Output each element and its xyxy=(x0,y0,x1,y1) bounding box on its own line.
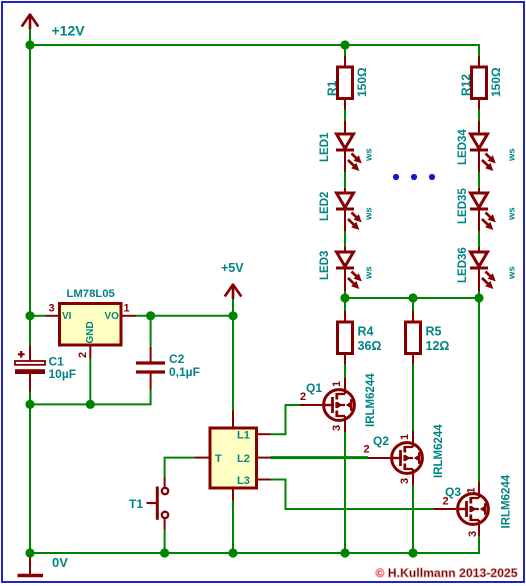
svg-text:2: 2 xyxy=(364,444,370,456)
wire: R12 to LED34 xyxy=(478,110,480,122)
capacitor C2 xyxy=(136,363,165,372)
pin: LED1 anode xyxy=(344,121,346,134)
pin: C2 top xyxy=(150,347,152,362)
svg-text:0V: 0V xyxy=(52,555,68,570)
wire: LED34 to LED35 xyxy=(478,172,480,188)
svg-text:IRLM6244: IRLM6244 xyxy=(365,373,377,427)
junction at 0V rail T1 xyxy=(160,548,169,557)
pin: R1 bottom xyxy=(344,99,346,110)
pin: controller L3 xyxy=(257,479,271,481)
pin: T1 bottom xyxy=(164,519,166,530)
wire: R1 to LED1 xyxy=(344,110,346,122)
svg-text:2: 2 xyxy=(443,496,449,508)
pin: controller L1 xyxy=(257,433,271,435)
svg-text:150Ω: 150Ω xyxy=(355,67,369,97)
svg-text:© H.Kullmann 2013-2025: © H.Kullmann 2013-2025 xyxy=(376,566,518,580)
resistor R4 xyxy=(338,322,353,354)
wire: left +12V rail down to VI node xyxy=(29,29,31,346)
svg-text:0,1µF: 0,1µF xyxy=(169,365,200,379)
LED LED34 xyxy=(470,134,498,174)
pin: T1 top xyxy=(164,477,166,488)
svg-text:R4: R4 xyxy=(358,325,374,339)
pin: Q3 source pin 3 xyxy=(478,525,480,536)
svg-text:Q1: Q1 xyxy=(306,381,322,395)
pin: R12 bottom xyxy=(478,99,480,110)
junction at 0V rail Q1 xyxy=(340,548,349,557)
svg-text:3: 3 xyxy=(331,425,343,431)
pin: R4 top xyxy=(344,311,346,322)
svg-text:T: T xyxy=(215,453,222,465)
pin: LED36 cathode xyxy=(478,269,480,291)
svg-text:1: 1 xyxy=(124,303,130,315)
pin: Q1 gate pin 2 xyxy=(300,404,322,406)
pin: C2 bottom xyxy=(150,373,152,390)
pin: controller L2 xyxy=(257,457,271,459)
pin: LED34 cathode xyxy=(478,151,480,172)
controller U2 body xyxy=(210,428,257,488)
svg-text:C2: C2 xyxy=(169,352,185,366)
pin: controller bottom xyxy=(232,488,234,501)
resistor R1 xyxy=(338,67,353,99)
wire: LED35 to LED36 xyxy=(478,231,480,247)
transistor Q1 xyxy=(323,389,354,422)
resistor R12 xyxy=(472,67,487,99)
LED LED36 xyxy=(470,252,498,292)
svg-text:36Ω: 36Ω xyxy=(358,339,382,353)
svg-text:3: 3 xyxy=(49,303,55,315)
pin: regulator VO pin 1 xyxy=(121,315,136,317)
wire: +5V node down to controller top pin xyxy=(232,299,234,411)
LED LED2 xyxy=(336,193,364,233)
wire: LED1 to LED2 xyxy=(344,172,346,188)
svg-text:+5V: +5V xyxy=(221,261,244,275)
wire: mid rail to R4 xyxy=(344,298,346,311)
svg-text:ws: ws xyxy=(364,266,375,280)
wire: C1 bottom to ground rail xyxy=(29,392,31,554)
svg-text:LED2: LED2 xyxy=(319,192,331,221)
wire: L1 to Q1 gate xyxy=(271,405,301,434)
svg-text:VI: VI xyxy=(62,311,72,322)
wire: mid rail to R5 xyxy=(412,298,414,311)
power symbol +12V arrow xyxy=(22,14,39,30)
capacitor C1 xyxy=(15,351,45,374)
junction at mid rail R5 xyxy=(408,293,417,302)
junction at R1 top xyxy=(340,40,349,49)
LED LED3 xyxy=(336,252,364,292)
wire: Q2 source to 0V rail xyxy=(412,485,414,553)
svg-text:L1: L1 xyxy=(237,430,250,442)
pin: R1 top xyxy=(344,56,346,67)
wire: mid rail to Q3 drain xyxy=(478,298,480,482)
pin: R5 bottom xyxy=(412,354,414,365)
pin: R12 top xyxy=(478,56,480,67)
wire: regulator GND pin down xyxy=(89,359,91,404)
svg-text:L3: L3 xyxy=(237,475,250,487)
pin: Q3 drain pin 1 xyxy=(478,482,480,493)
pin: C1 bottom xyxy=(29,374,31,392)
svg-text:Q2: Q2 xyxy=(373,434,389,448)
svg-text:GND: GND xyxy=(85,321,96,343)
svg-text:12Ω: 12Ω xyxy=(426,339,450,353)
switch T1 push button xyxy=(147,487,169,520)
junction at VI node xyxy=(25,311,34,320)
svg-text:10µF: 10µF xyxy=(49,367,77,381)
svg-text:R12: R12 xyxy=(459,74,473,96)
pin: Q3 gate pin 2 xyxy=(434,508,456,510)
svg-text:1: 1 xyxy=(466,487,478,493)
wire: LED3 to mid rail xyxy=(344,291,346,298)
junction at regulator GND xyxy=(86,400,95,409)
junction at mid rail R4 xyxy=(340,293,349,302)
pin: regulator VI pin 3 xyxy=(46,315,60,317)
wire: R5 to Q2 drain xyxy=(412,365,414,432)
svg-text:2: 2 xyxy=(77,352,89,358)
wire: L2 to Q2 gate xyxy=(271,456,369,459)
wire: LED2 to LED3 xyxy=(344,231,346,247)
pin: R4 bottom xyxy=(344,354,346,365)
wire: mid rail xyxy=(345,297,479,299)
wire: button bottom to 0V rail xyxy=(164,530,166,554)
junction at +12V rail left xyxy=(25,40,34,49)
junction at 0V rail controller xyxy=(228,548,237,557)
resistor R5 xyxy=(406,322,421,354)
junction at +5V node xyxy=(228,311,237,320)
junction at 0V rail Q2 xyxy=(408,548,417,557)
LED LED35 xyxy=(470,193,498,233)
pin: Q2 source pin 3 xyxy=(412,474,414,485)
pin: Q2 gate pin 2 xyxy=(368,457,390,459)
svg-text:L2: L2 xyxy=(237,453,250,465)
svg-text:LED3: LED3 xyxy=(319,251,331,280)
svg-text:3: 3 xyxy=(467,531,479,537)
svg-text:R5: R5 xyxy=(426,325,442,339)
wire: C2 top to VO rail xyxy=(150,316,152,347)
svg-text:T1: T1 xyxy=(129,497,143,511)
junction at mid rail right xyxy=(474,293,483,302)
pin: Q1 source pin 3 xyxy=(344,421,346,432)
wire: 0V bottom rail xyxy=(30,536,479,553)
junction at ground rail left xyxy=(25,400,34,409)
svg-text:LED1: LED1 xyxy=(319,132,331,162)
transistor Q3 xyxy=(457,493,488,526)
svg-text:ws: ws xyxy=(364,148,375,162)
wire: R12 top feed xyxy=(478,55,480,57)
svg-text:ws: ws xyxy=(364,207,375,221)
wire: Q1 source to 0V rail xyxy=(344,432,346,553)
svg-text:3: 3 xyxy=(399,478,411,484)
svg-text:ws: ws xyxy=(507,266,518,280)
pin: LED3 cathode xyxy=(344,269,346,291)
svg-text:VO: VO xyxy=(105,311,120,322)
wire: +12V top rail xyxy=(30,45,479,56)
pin: LED35 anode xyxy=(478,188,480,193)
pin: LED2 cathode xyxy=(344,210,346,231)
wire: L3 to Q3 gate xyxy=(271,480,435,510)
pin: 0V flag stub xyxy=(29,553,31,574)
wire: R1 top feed xyxy=(344,45,346,56)
junction at C2 top xyxy=(146,311,155,320)
wire: T pin to button xyxy=(165,458,195,477)
wire: controller bottom pin to 0V rail xyxy=(232,501,234,554)
pin: LED3 anode xyxy=(344,247,346,252)
junction at 0V rail left xyxy=(25,548,34,557)
svg-text:LM78L05: LM78L05 xyxy=(67,288,115,300)
svg-text:1: 1 xyxy=(399,434,411,440)
power symbol +5V arrow xyxy=(225,284,242,300)
svg-text:LED35: LED35 xyxy=(457,188,469,224)
svg-text:ws: ws xyxy=(507,148,518,162)
svg-text:LED34: LED34 xyxy=(457,129,469,165)
svg-text:R1: R1 xyxy=(325,80,339,96)
pin: LED2 anode xyxy=(344,188,346,193)
op-amp U1 regulator LM78L05 body xyxy=(60,304,122,346)
pin: LED36 anode xyxy=(478,247,480,252)
pin: LED34 anode xyxy=(478,121,480,134)
transistor Q2 xyxy=(391,442,422,475)
pin: controller T xyxy=(195,457,210,459)
svg-text:1: 1 xyxy=(331,381,343,387)
pin: C1 top xyxy=(29,346,31,362)
svg-text:IRLM6244: IRLM6244 xyxy=(501,474,513,528)
pin: regulator GND pin 2 xyxy=(89,345,91,359)
ellipsis dots between LED chains xyxy=(393,174,399,180)
svg-text:LED36: LED36 xyxy=(457,247,469,283)
svg-text:+12V: +12V xyxy=(52,23,86,39)
svg-text:150Ω: 150Ω xyxy=(489,67,503,97)
svg-text:2: 2 xyxy=(300,391,306,403)
LED LED1 xyxy=(336,134,364,174)
wire: ground rail under regulator xyxy=(30,390,151,405)
pin: LED1 cathode xyxy=(344,151,346,172)
power symbol 0V bar xyxy=(18,574,44,578)
svg-text:ws: ws xyxy=(507,207,518,221)
pin: Q2 drain pin 1 xyxy=(412,431,414,442)
wire: LED36 to mid rail xyxy=(478,291,480,298)
pin: controller top xyxy=(232,411,234,428)
wire: VI feed to regulator xyxy=(30,315,46,317)
wire: VO rail to +5V node xyxy=(136,315,233,317)
pin: LED35 cathode xyxy=(478,210,480,231)
svg-text:IRLM6244: IRLM6244 xyxy=(433,424,445,478)
wire: R4 to Q1 drain xyxy=(344,365,346,379)
pin: Q1 drain pin 1 xyxy=(344,378,346,389)
pin: R5 top xyxy=(412,311,414,322)
